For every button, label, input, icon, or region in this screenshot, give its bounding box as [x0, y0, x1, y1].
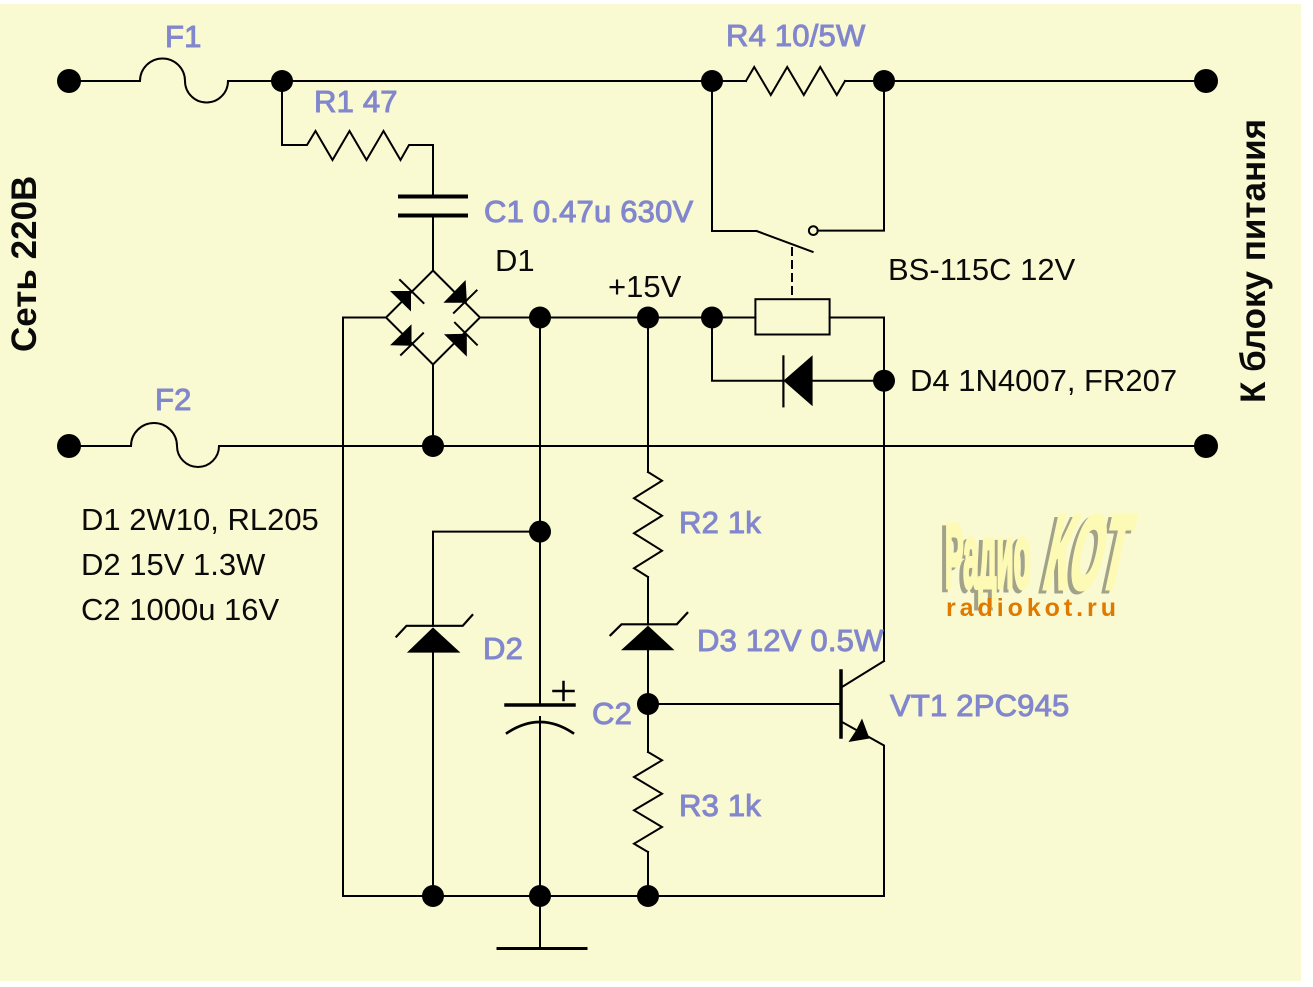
relay switch arm — [757, 231, 813, 252]
wire D2 anode down — [432, 653, 434, 896]
wire bottom rail — [343, 895, 884, 897]
diode D4 triangle — [783, 355, 812, 406]
bridge diode bottom-left bar — [401, 333, 423, 355]
svg-text:F2: F2 — [155, 382, 192, 417]
svg-text:Сеть 220В: Сеть 220В — [5, 176, 44, 352]
node R1 tap — [271, 70, 293, 92]
wire bridge bottom to F2 rail — [432, 365, 434, 447]
fuse F1 — [140, 59, 228, 103]
wire D2 branch — [433, 532, 540, 626]
bridge rectifier D1 diamond — [386, 271, 480, 365]
capacitor C1 — [400, 197, 466, 216]
zener D2 bar — [396, 615, 472, 637]
wire bridge left to down rail — [343, 318, 386, 897]
terminal top-left — [57, 69, 81, 93]
wire top rail middle — [228, 80, 746, 82]
zener D3 triangle — [621, 626, 675, 651]
node bottom rail R3 — [637, 885, 659, 907]
wire switch right — [818, 81, 884, 231]
resistor R4 — [746, 67, 845, 95]
capacitor C2 plus sign — [554, 682, 574, 700]
wire R1 drop — [281, 81, 283, 145]
terminal bottom-right — [1194, 434, 1218, 458]
wire base — [648, 703, 840, 705]
wire top rail left — [69, 80, 140, 82]
node bottom rail D2 — [422, 885, 444, 907]
svg-text:C2: C2 — [592, 696, 632, 731]
node R2 top on +15V — [637, 307, 659, 329]
node C2 branch on +15V — [529, 307, 551, 329]
transistor VT1 collector — [842, 661, 884, 687]
wire +15V rail — [480, 317, 755, 319]
node R4 right — [873, 70, 895, 92]
wire D4 left drop — [712, 318, 783, 381]
bridge diode top-right bar — [454, 291, 477, 313]
wire D3 anode to node — [647, 650, 649, 704]
wire switch left drop — [712, 81, 757, 231]
svg-text:D3 12V 0.5W: D3 12V 0.5W — [697, 623, 884, 658]
svg-text:radiokot.ru: radiokot.ru — [946, 594, 1116, 622]
wire F2 rail left — [69, 445, 131, 447]
capacitor C2 bottom curved plate — [507, 722, 573, 733]
svg-text:R1 47: R1 47 — [314, 84, 398, 119]
svg-text:R4 10/5W: R4 10/5W — [726, 18, 866, 53]
svg-text:C1 0.47u 630V: C1 0.47u 630V — [484, 194, 694, 229]
svg-text:Радио: Радио — [945, 507, 1031, 607]
relay switch contact circle — [809, 226, 818, 235]
wire C1 to bridge — [432, 216, 434, 271]
bridge diode bottom-right triangle — [444, 334, 467, 357]
bridge diode top-left triangle — [390, 291, 411, 312]
capacitor C2 top plate — [506, 703, 574, 707]
node relay left on +15V — [701, 307, 723, 329]
wire R1 to C1 — [432, 145, 434, 196]
wire D4 right — [813, 380, 884, 382]
wire base node to R3 — [647, 704, 649, 752]
node D2 tap — [529, 521, 551, 543]
relay actuator dashed line — [791, 248, 793, 299]
svg-text:BS-115C 12V: BS-115C 12V — [888, 252, 1076, 287]
wire R3 bottom — [647, 852, 649, 896]
resistor R2 — [634, 472, 662, 577]
resistor R3 — [634, 752, 662, 852]
transistor VT1 emitter — [842, 722, 884, 896]
node R4 left — [701, 70, 723, 92]
bridge diode bottom-right bar — [455, 323, 477, 345]
wire C2 branch drop — [539, 318, 541, 706]
wire F2 rail right — [219, 445, 1206, 447]
svg-text:D1: D1 — [495, 243, 535, 278]
bridge diode top-right triangle — [443, 280, 467, 303]
svg-text:C2 1000u 16V: C2 1000u 16V — [81, 592, 280, 627]
svg-text:VT1 2PC945: VT1 2PC945 — [890, 688, 1070, 723]
ground stub — [539, 896, 541, 948]
node bottom rail ground — [529, 885, 551, 907]
svg-text:R3 1k: R3 1k — [679, 788, 761, 823]
node bridge bottom / F2 rail — [422, 435, 444, 457]
svg-text:+15V: +15V — [608, 269, 682, 304]
transistor VT1 bar — [839, 671, 843, 737]
resistor R1 — [282, 131, 433, 160]
transistor VT1 emitter arrow — [849, 719, 870, 743]
bridge diode top-left bar — [400, 280, 424, 303]
wire R2 top — [647, 318, 649, 473]
svg-text:F1: F1 — [165, 19, 202, 54]
ground bar — [498, 947, 586, 950]
svg-text:D1 2W10, RL205: D1 2W10, RL205 — [81, 502, 319, 537]
wire top rail right — [845, 80, 1206, 82]
node base / C2 — [637, 693, 659, 715]
svg-text:R2 1k: R2 1k — [679, 505, 761, 540]
svg-text:D2: D2 — [483, 631, 523, 666]
zener D2 triangle — [407, 627, 461, 652]
diode D4 bar — [782, 356, 784, 406]
wire C2 bottom — [539, 717, 541, 896]
svg-text:К блоку питания: К блоку питания — [1234, 119, 1273, 403]
node D4 right — [873, 370, 895, 392]
svg-text:D4 1N4007, FR207: D4 1N4007, FR207 — [910, 363, 1177, 398]
relay coil K1 — [755, 299, 829, 334]
fuse F2 — [131, 423, 219, 467]
terminal top-right — [1194, 69, 1218, 93]
svg-text:D2 15V 1.3W: D2 15V 1.3W — [81, 547, 266, 582]
terminal bottom-left — [57, 434, 81, 458]
zener D3 bar — [611, 613, 688, 635]
wire coil right to D4 — [830, 318, 884, 662]
wire R2 to D3 — [647, 577, 649, 624]
bridge diode bottom-left triangle — [390, 324, 411, 346]
